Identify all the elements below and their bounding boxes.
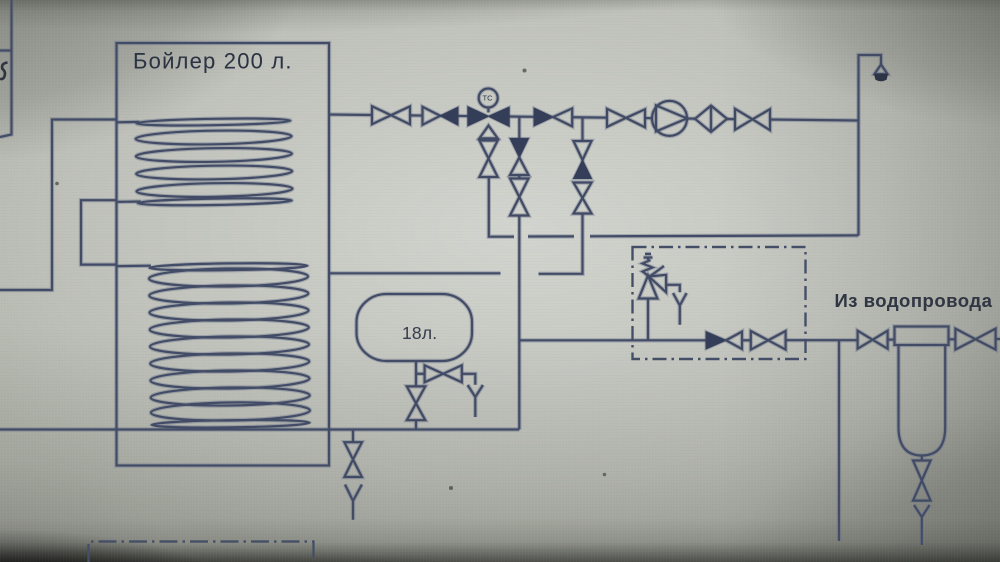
svg-text:TC: TC xyxy=(483,94,494,103)
svg-text:Из водопровода: Из водопровода xyxy=(835,290,993,311)
svg-text:18л.: 18л. xyxy=(402,323,437,343)
svg-text:Бойлер 200 л.: Бойлер 200 л. xyxy=(133,49,293,74)
